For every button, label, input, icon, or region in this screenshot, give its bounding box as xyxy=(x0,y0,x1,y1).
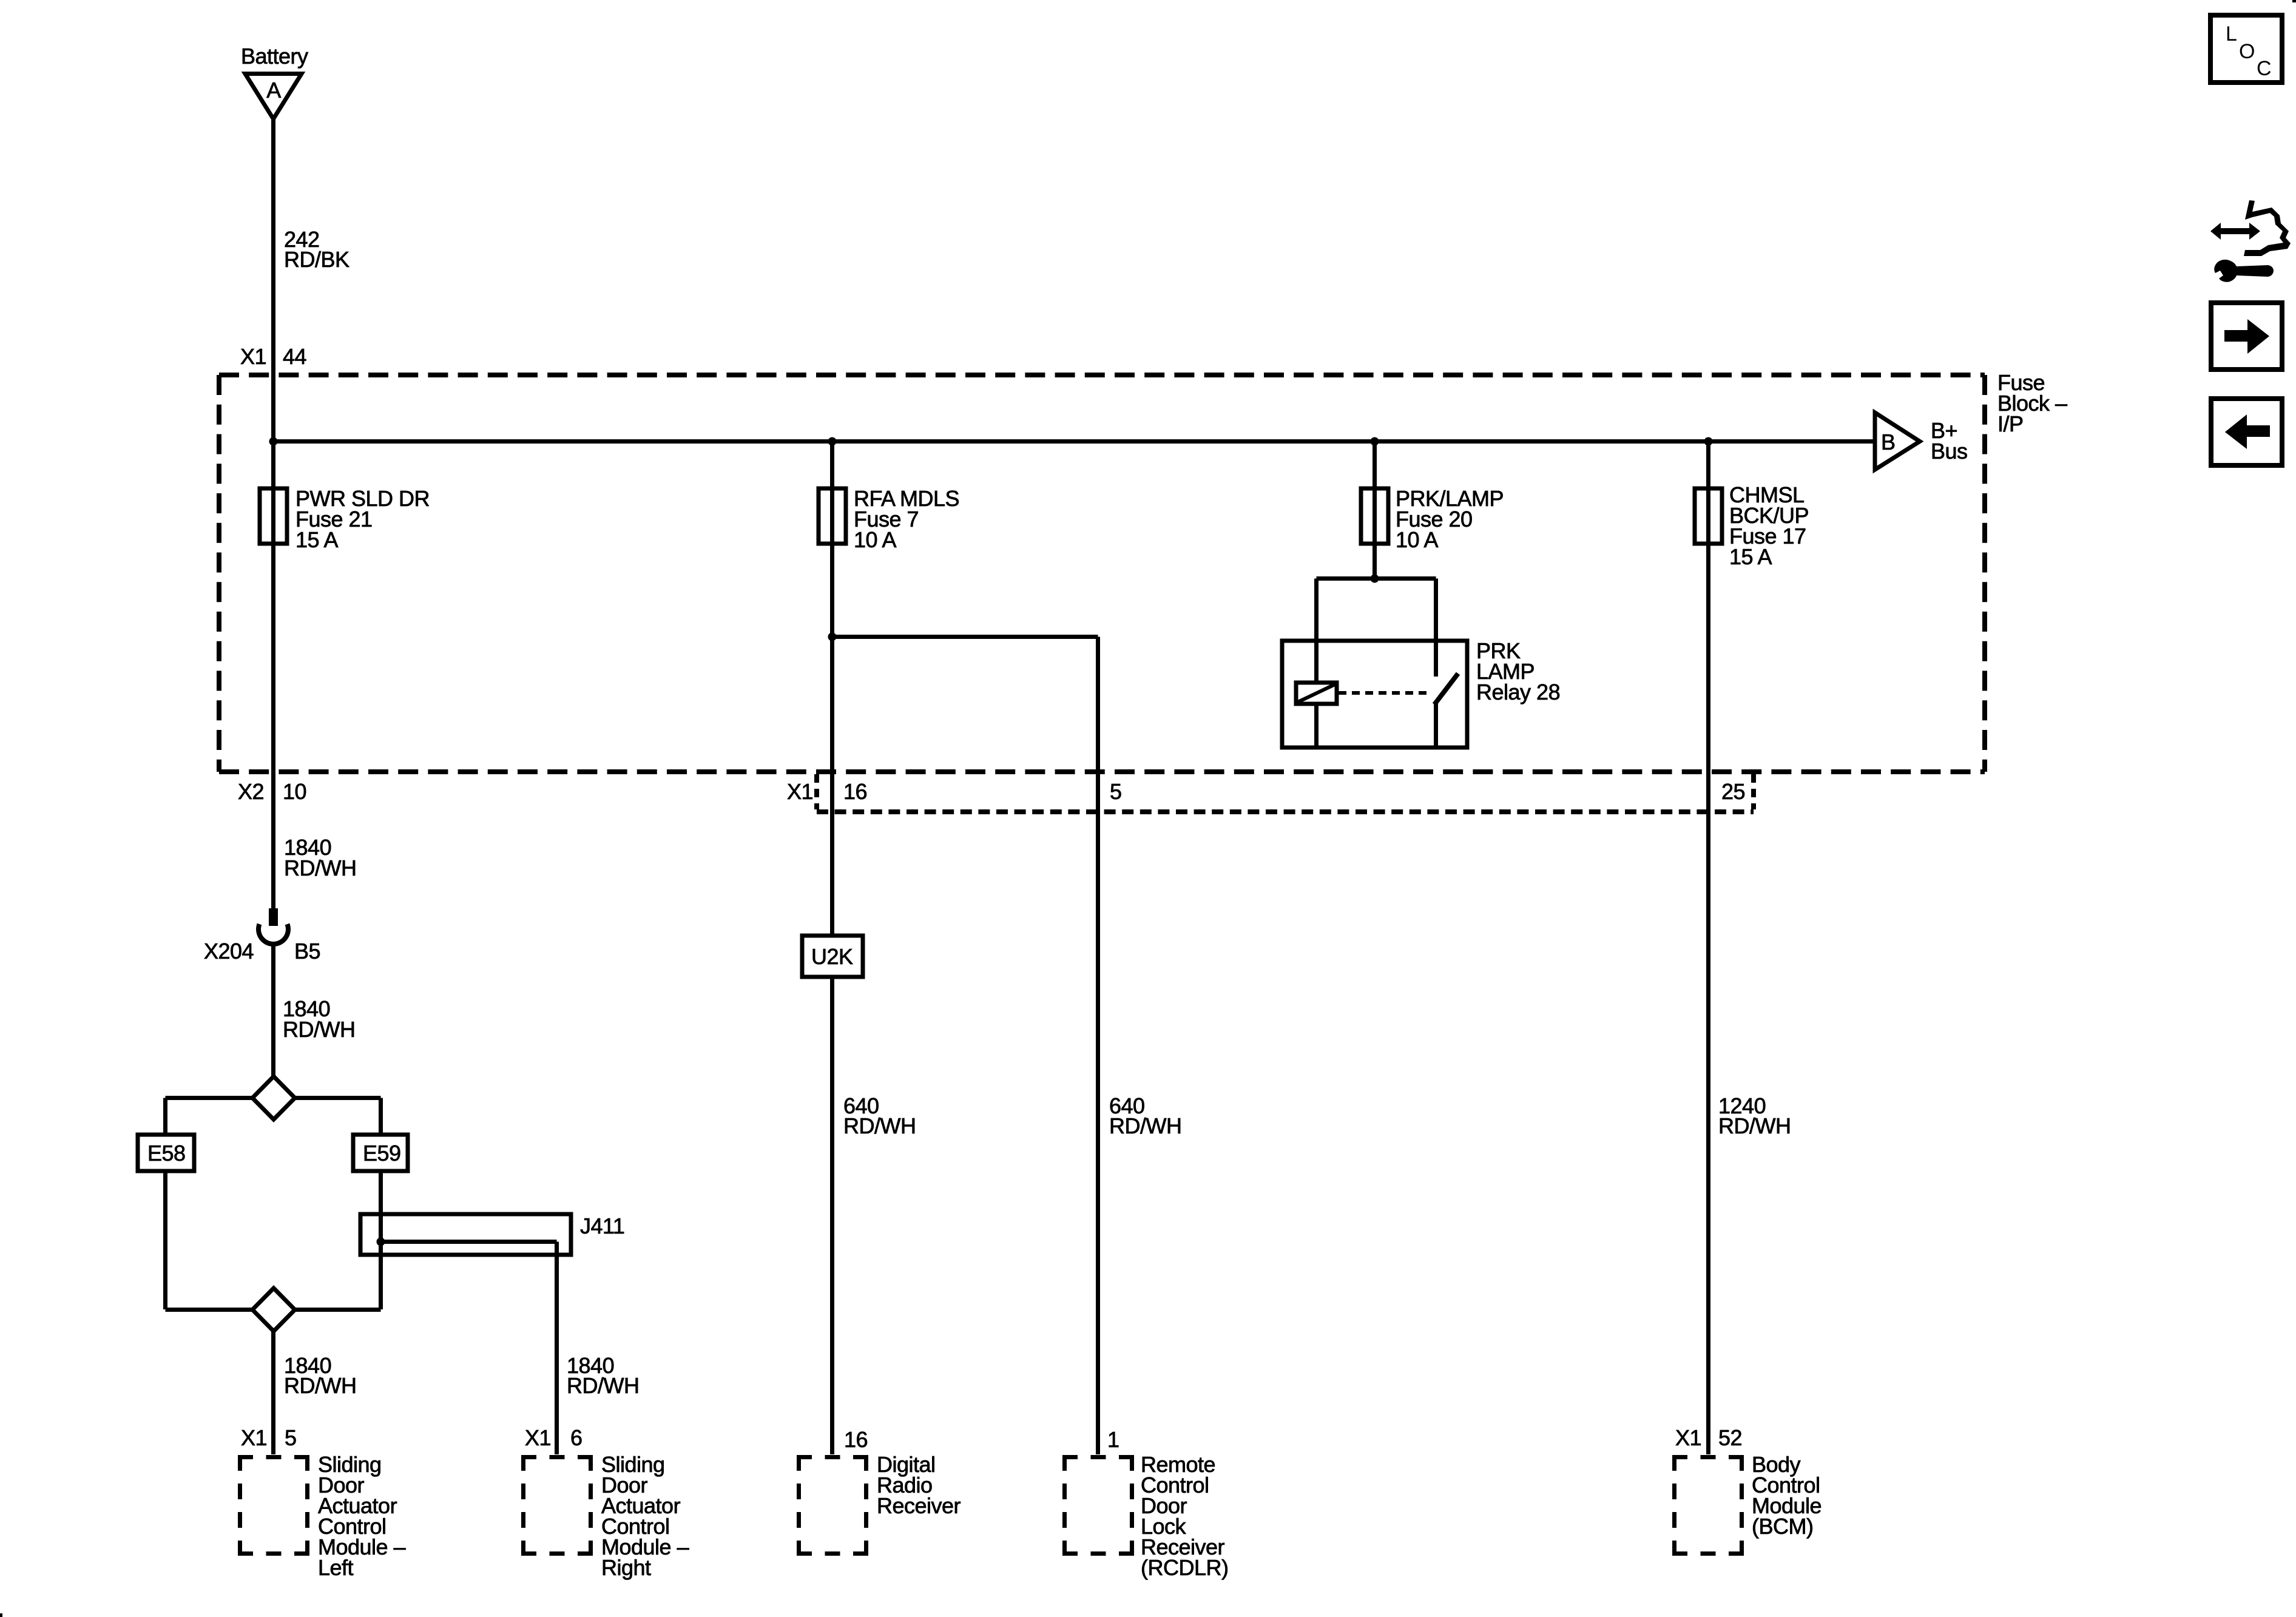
svg-text:I/P: I/P xyxy=(1997,411,2024,436)
relay actuating dashed link xyxy=(1339,691,1427,695)
option code U2K box xyxy=(802,936,863,977)
svg-text:C: C xyxy=(2257,57,2272,80)
battery symbol triangle A xyxy=(245,74,302,120)
relay box PRK LAMP Relay 28 xyxy=(1282,641,1467,748)
wire E58 lower lead xyxy=(163,1171,167,1309)
wire relay bracket horizontal xyxy=(1317,576,1436,581)
wire E59 upper lead xyxy=(379,1098,383,1135)
svg-text:5: 5 xyxy=(285,1425,297,1450)
stray dot bottom left corner xyxy=(0,1613,2,1617)
svg-text:44: 44 xyxy=(283,344,306,369)
wire to sliding door left module xyxy=(271,1329,275,1454)
module box RCDLR xyxy=(1062,1455,1134,1556)
svg-text:16: 16 xyxy=(844,1427,868,1452)
svg-text:X1: X1 xyxy=(241,1425,267,1450)
svg-text:Bus: Bus xyxy=(1931,439,1968,464)
junction dot bus/fuse21 xyxy=(269,437,278,446)
icon LOC box top right xyxy=(2210,15,2282,83)
module boxes (dashed) xyxy=(238,1455,1744,1556)
wire fuse7 below U2K xyxy=(830,977,834,1454)
wire fuse7 drop xyxy=(830,442,834,936)
svg-text:10: 10 xyxy=(283,779,306,804)
svg-text:B: B xyxy=(1881,430,1896,454)
svg-text:RD/BK: RD/BK xyxy=(284,247,349,272)
junction dot relay bracket xyxy=(1371,575,1379,583)
junction dot bus/fuse17 xyxy=(1704,437,1713,446)
wire to sliding door right module xyxy=(555,1242,559,1455)
relay switch arm xyxy=(1434,673,1458,704)
svg-text:RD/WH: RD/WH xyxy=(1109,1113,1181,1138)
svg-text:A: A xyxy=(266,78,281,103)
svg-text:X1: X1 xyxy=(525,1425,551,1450)
wire fuse20 drop xyxy=(1373,442,1377,579)
connector band lower dashed line xyxy=(817,809,1754,814)
svg-text:Relay 28: Relay 28 xyxy=(1476,680,1560,704)
junction bus bar J411 xyxy=(360,1214,571,1255)
svg-text:RD/WH: RD/WH xyxy=(283,1017,355,1042)
stray dot top right corner xyxy=(2292,0,2296,2)
svg-text:(RCDLR): (RCDLR) xyxy=(1141,1555,1229,1580)
connector band left tick xyxy=(814,774,819,809)
svg-text:15 A: 15 A xyxy=(1729,544,1772,569)
splice diamond S-bottom xyxy=(252,1288,295,1331)
svg-text:O: O xyxy=(2239,40,2255,63)
fuse 7 body xyxy=(819,488,846,544)
fuse block dashed box xyxy=(219,375,1985,812)
module box BCM xyxy=(1672,1455,1744,1556)
svg-text:Left: Left xyxy=(318,1555,354,1580)
wire B+ bus horizontal xyxy=(274,439,1876,444)
splice E58 box xyxy=(138,1135,194,1171)
wire RCDLR drop xyxy=(1096,637,1100,1455)
svg-text:X2: X2 xyxy=(238,779,264,804)
relay switch lower contact xyxy=(1434,704,1438,748)
splice diamond S-top xyxy=(252,1076,295,1119)
svg-text:U2K: U2K xyxy=(811,944,853,969)
fuse 21 body xyxy=(260,488,287,544)
svg-text:52: 52 xyxy=(1718,1425,1742,1450)
svg-text:1: 1 xyxy=(1107,1427,1119,1452)
svg-text:RD/WH: RD/WH xyxy=(843,1113,916,1138)
icon connector service (arrows + wrench) xyxy=(2210,200,2291,282)
wire E58 upper lead xyxy=(163,1098,167,1135)
splice E59 box xyxy=(353,1135,408,1171)
junction dot J411 xyxy=(377,1238,385,1246)
junction dot fuse7 branch xyxy=(828,633,837,641)
svg-text:X1: X1 xyxy=(787,779,813,804)
module box Sliding Door Actuator Control Module Right xyxy=(521,1455,593,1556)
svg-text:Right: Right xyxy=(601,1555,651,1580)
svg-text:RD/WH: RD/WH xyxy=(567,1373,639,1398)
module box Digital Radio Receiver xyxy=(797,1455,868,1556)
icon arrow box right xyxy=(2211,303,2282,370)
wire branch to RCDLR horizontal xyxy=(832,635,1098,639)
fuse 17 body xyxy=(1695,488,1722,544)
svg-text:RD/WH: RD/WH xyxy=(284,1373,356,1398)
svg-text:16: 16 xyxy=(843,779,867,804)
svg-text:10 A: 10 A xyxy=(854,527,897,552)
svg-text:X1: X1 xyxy=(1675,1425,1701,1450)
fuse 20 body xyxy=(1361,488,1388,544)
svg-text:X1: X1 xyxy=(240,344,266,369)
relay coil xyxy=(1296,683,1337,704)
wire relay switch lead xyxy=(1434,579,1438,677)
icon arrow box left xyxy=(2211,399,2282,465)
wire splice top horizontal xyxy=(166,1096,381,1100)
module box Sliding Door Actuator Control Module Left xyxy=(238,1455,309,1556)
wire battery feed vertical 242 RD/BK xyxy=(271,117,275,909)
svg-text:6: 6 xyxy=(570,1425,582,1450)
B+ bus arrow triangle xyxy=(1875,413,1920,470)
wire X204 to splice diamond xyxy=(271,942,275,1078)
svg-text:E58: E58 xyxy=(147,1141,186,1166)
connector X204 female cup xyxy=(258,924,288,944)
svg-text:J411: J411 xyxy=(580,1214,624,1238)
svg-text:5: 5 xyxy=(1110,779,1122,804)
svg-text:(BCM): (BCM) xyxy=(1752,1514,1813,1539)
svg-text:B5: B5 xyxy=(294,939,320,964)
wire relay coil lead xyxy=(1314,579,1319,683)
svg-text:E59: E59 xyxy=(363,1141,401,1166)
svg-text:L: L xyxy=(2226,22,2237,46)
wire J411 output horizontal xyxy=(381,1240,557,1244)
junction dot bus/fuse7 xyxy=(828,437,837,446)
wire splice bottom horizontal xyxy=(166,1308,381,1312)
svg-text:X204: X204 xyxy=(204,939,254,964)
relay coil diagonal xyxy=(1298,684,1335,702)
svg-text:RD/WH: RD/WH xyxy=(284,856,356,880)
svg-text:10 A: 10 A xyxy=(1396,527,1439,552)
svg-text:15 A: 15 A xyxy=(295,527,339,552)
svg-text:Receiver: Receiver xyxy=(877,1493,961,1518)
wire E59 lower lead through J411 xyxy=(379,1171,383,1309)
relay coil lower lead xyxy=(1314,704,1319,748)
connector band right tick xyxy=(1751,774,1756,809)
svg-text:25: 25 xyxy=(1721,779,1745,804)
wire fuse17 CHMSL drop xyxy=(1706,442,1710,1455)
svg-text:RD/WH: RD/WH xyxy=(1718,1113,1791,1138)
connector X204 male pin xyxy=(269,908,278,926)
junction dot bus/fuse20 xyxy=(1371,437,1379,446)
svg-text:Battery: Battery xyxy=(241,44,308,69)
